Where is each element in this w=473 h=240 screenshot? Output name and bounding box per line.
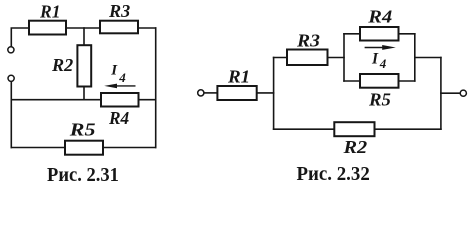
svg-text:4: 4 (118, 70, 126, 85)
svg-text:R5: R5 (69, 119, 96, 139)
svg-text:R1: R1 (227, 66, 250, 86)
svg-text:R3: R3 (108, 1, 130, 21)
svg-text:R4: R4 (108, 108, 129, 128)
svg-text:R2: R2 (51, 55, 73, 75)
svg-text:R4: R4 (367, 6, 392, 26)
svg-text:R3: R3 (296, 31, 320, 51)
svg-text:I: I (110, 63, 118, 79)
svg-text:4: 4 (379, 56, 387, 71)
svg-text:R2: R2 (342, 137, 367, 157)
svg-text:I: I (371, 50, 379, 67)
svg-text:Рис. 2.32: Рис. 2.32 (297, 163, 370, 185)
svg-text:R5: R5 (368, 90, 391, 110)
svg-text:Рис. 2.31: Рис. 2.31 (47, 164, 119, 186)
svg-text:R1: R1 (39, 2, 60, 22)
